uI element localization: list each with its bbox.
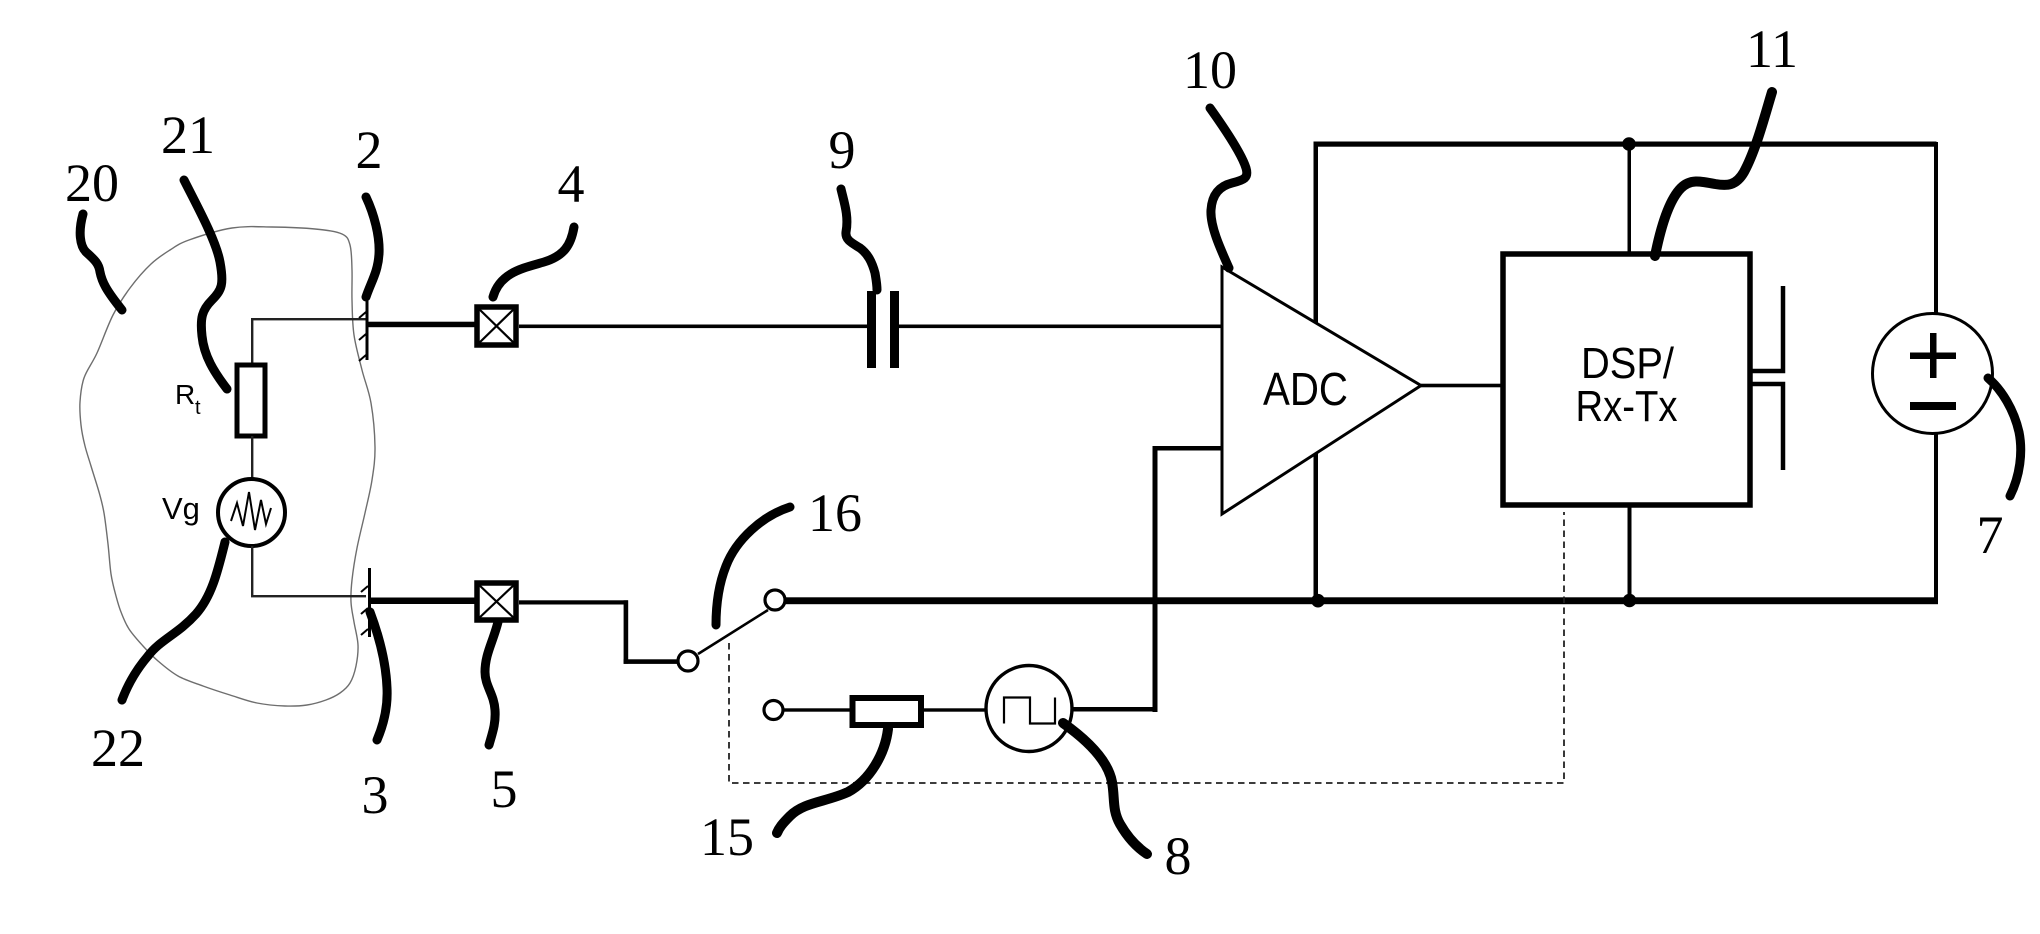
leader 11	[1655, 92, 1772, 256]
svg-text:22: 22	[91, 718, 145, 778]
leader 22	[122, 542, 225, 700]
dashed enclosure	[729, 512, 1564, 783]
electrode 3 (bottom)	[368, 568, 371, 637]
pulse generator 8	[986, 666, 1072, 752]
wire: electrode3 to connector5	[370, 598, 477, 605]
svg-text:8: 8	[1165, 826, 1192, 886]
leader 2	[366, 197, 379, 297]
switch 16 upper contact	[765, 590, 785, 610]
wire: capacitor9 to ADC	[899, 325, 1223, 329]
capacitor 9 plates	[867, 291, 876, 368]
wire: junction to DSP top	[1628, 144, 1632, 254]
battery 7	[1873, 314, 1993, 434]
leader 4	[493, 227, 574, 297]
wire: inner loop bottom horizontal	[251, 595, 366, 597]
wire: inner loop left vertical upper	[251, 318, 253, 365]
svg-text:t: t	[195, 397, 201, 419]
DSP box U11	[1503, 254, 1750, 505]
wire: ADC output to DSP	[1421, 384, 1503, 388]
leader 9	[841, 189, 877, 290]
right vertical wire bottom	[1934, 433, 1938, 603]
wire: step horizontal to switch	[624, 659, 679, 664]
svg-text:Rx-Tx: Rx-Tx	[1576, 382, 1678, 431]
resistor 15	[853, 698, 922, 725]
wire: connector4 to capacitor9	[519, 325, 867, 329]
switch 16 lower contact	[678, 651, 698, 671]
ADC lower input wire	[1153, 446, 1224, 451]
wire: resistor15 to pulse gen	[921, 708, 987, 711]
leader 10	[1210, 108, 1247, 268]
junction dot feedback bottom	[1311, 594, 1325, 608]
wire: electrode2 to connector4	[367, 322, 477, 328]
svg-text:ADC: ADC	[1263, 363, 1348, 415]
svg-text:9: 9	[829, 120, 856, 180]
svg-text:DSP/: DSP/	[1581, 339, 1675, 388]
svg-text:15: 15	[700, 807, 754, 867]
wire: connector5 to step	[519, 600, 628, 604]
vertical wire: ADC lower input / pulse gen to bottom wire	[1153, 446, 1158, 712]
leader 5	[485, 622, 498, 745]
svg-text:11: 11	[1746, 19, 1798, 79]
wire: resistor to source	[251, 436, 253, 479]
electrode 2 (top)	[366, 301, 369, 360]
right vertical wire top (to battery)	[1934, 142, 1938, 314]
svg-text:20: 20	[65, 153, 119, 213]
svg-text:3: 3	[362, 765, 389, 825]
svg-text:16: 16	[808, 483, 862, 543]
leader 15	[777, 729, 888, 833]
leader 20	[80, 214, 122, 310]
svg-text:7: 7	[1977, 505, 2004, 565]
leader 21	[184, 180, 227, 389]
leader 3	[370, 612, 387, 740]
leader 16	[716, 507, 790, 625]
svg-text:2: 2	[356, 120, 383, 180]
leader 8	[1063, 723, 1147, 854]
junction dot DSP bottom	[1623, 594, 1637, 608]
svg-text:10: 10	[1183, 40, 1237, 100]
junction dot top	[1622, 137, 1636, 151]
leader 7	[1988, 378, 2021, 496]
svg-text:5: 5	[491, 759, 518, 819]
wire: step vertical	[624, 600, 629, 663]
open terminal in dashed box	[764, 701, 783, 720]
wire: DSP bottom to main wire	[1628, 505, 1632, 601]
wire: pulse gen to vertical	[1072, 707, 1156, 712]
wire: inner loop top horizontal	[251, 318, 366, 320]
switch arm	[698, 610, 768, 654]
bottom main wire	[785, 597, 1938, 604]
svg-text:4: 4	[558, 154, 585, 214]
connector 4 (X-box)	[477, 307, 516, 345]
wire: terminal to resistor15	[784, 708, 850, 711]
top feedback wire	[1314, 142, 1937, 147]
op-amp ADC triangle U10	[1222, 267, 1421, 514]
antenna symbol	[1752, 286, 1783, 371]
svg-text:Vg: Vg	[162, 491, 200, 526]
feedback vertical line (under ADC)	[1314, 142, 1319, 602]
source Vg circle	[218, 479, 285, 546]
wire: source to bottom loop	[251, 546, 253, 597]
body tissue outline (blob)	[80, 227, 375, 707]
svg-text:R: R	[175, 379, 195, 410]
noise waveform inside Vg	[231, 492, 271, 530]
connector 5 (X-box)	[477, 583, 516, 620]
resistor Rt	[237, 365, 265, 436]
svg-text:21: 21	[161, 105, 215, 165]
